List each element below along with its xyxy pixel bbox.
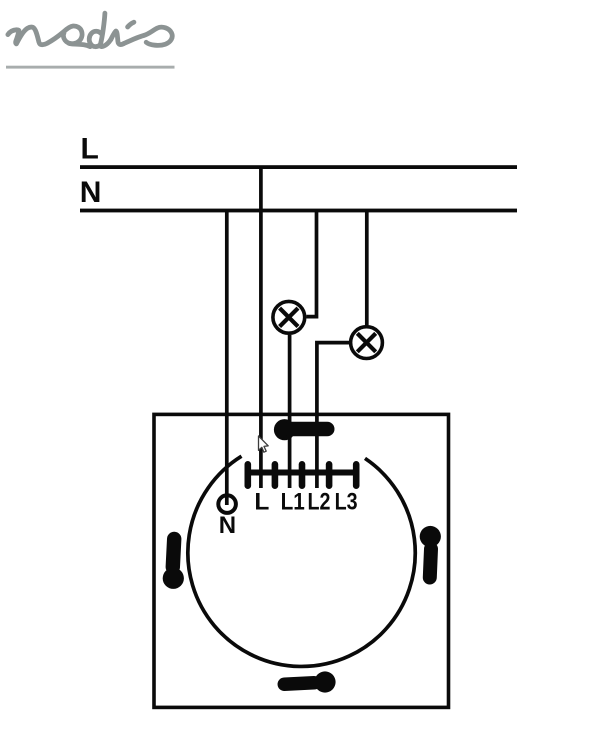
nedis logo script [8,13,172,46]
lamp E2 [351,327,383,359]
lamp E1 [273,301,305,333]
wire lamp1 to terminal L1 [288,335,292,488]
svg-text:L3: L3 [335,489,358,516]
terminal cap left [245,461,252,489]
svg-text:L1: L1 [281,489,305,516]
wire lamp1 to N line [306,211,316,317]
terminal screw 1 [272,461,279,489]
terminal cap right [353,461,360,489]
clip top [274,419,327,440]
svg-text:L: L [81,133,99,166]
clip left [163,539,184,589]
switch box outline [154,414,449,707]
wire L line [80,165,517,169]
wire lamp2 to N line [365,211,369,326]
switch module circle (open at top) [188,456,415,666]
wire N drop to terminal N [225,211,229,506]
terminal N circle [218,495,236,513]
wire L drop to terminal L [259,167,263,488]
terminal strip bar [245,470,360,476]
svg-text:N: N [219,512,236,539]
wire N line [80,209,517,213]
svg-text:N: N [80,176,102,209]
clip right [420,526,441,578]
svg-text:L: L [254,489,269,516]
terminal screw 3 [326,461,333,489]
clip bottom [284,671,335,692]
svg-text:L2: L2 [308,489,331,516]
terminal screw 2 [299,461,306,489]
mouse cursor [259,436,269,452]
logo underline [6,66,175,69]
wire lamp2 to terminal L2 [317,343,349,488]
